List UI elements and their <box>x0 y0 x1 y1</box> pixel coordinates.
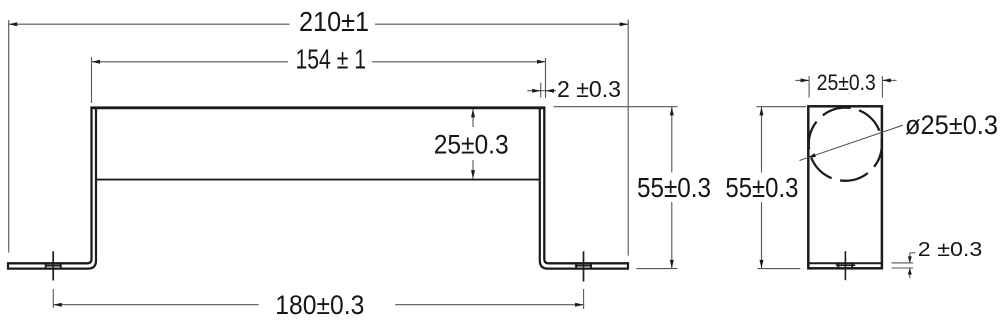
left foot hole centerline cross <box>45 251 61 280</box>
dimension 2±0.3 (side): arrows and leader <box>908 253 916 278</box>
dimension 55±0.3 (front view height): extension lines <box>554 107 678 269</box>
dimension 55±0.3 (side view height): dimension line with arrows <box>760 107 764 269</box>
right foot hole edges <box>576 262 591 269</box>
side view: hole centerline cross <box>836 251 855 280</box>
dimension 55±0.3 (side view height): extension lines <box>756 107 806 269</box>
side view: body rectangle <box>808 106 882 268</box>
svg-text:180±0.3: 180±0.3 <box>275 290 364 320</box>
handle front view: top bar <box>90 106 545 109</box>
dimension 210±1: dimension line with arrows <box>9 22 629 26</box>
diameter leader line <box>800 125 903 160</box>
svg-text:154 ± 1: 154 ± 1 <box>296 44 367 75</box>
dimension 210±1: extension lines <box>9 20 629 256</box>
svg-text:25±0.3: 25±0.3 <box>817 70 876 95</box>
dimension 25±0.3 (side width): outside arrows <box>795 78 896 82</box>
svg-text:55±0.3: 55±0.3 <box>725 172 798 203</box>
svg-text:55±0.3: 55±0.3 <box>637 172 711 203</box>
svg-text:2 ±0.3: 2 ±0.3 <box>918 239 983 261</box>
handle front view: right leg and right foot <box>540 108 628 270</box>
dimension 2±0.3 (side plate thickness): extension stubs <box>891 263 913 268</box>
dimension 25±0.3 (grip height, front): arrows <box>471 109 475 179</box>
handle front view: lower grip line <box>96 179 540 181</box>
left foot hole edges <box>46 262 61 269</box>
dimension 2±0.3 (front): dimension line with arrows <box>527 89 556 93</box>
dimension 2±0.3 (wall thickness, front): tick extension <box>540 83 542 98</box>
handle front view: left leg and left foot <box>8 108 96 270</box>
dimension 55±0.3 (front view height): dimension line with arrows <box>670 107 674 269</box>
dimension 154±1: dimension line with arrows <box>92 60 546 64</box>
svg-text:ø25±0.3: ø25±0.3 <box>905 110 998 140</box>
svg-text:210±1: 210±1 <box>299 6 369 37</box>
side view: dashed grip circle (hidden tube) <box>809 108 882 181</box>
dimension 180±0.3: extension lines <box>53 289 583 309</box>
dimension 180±0.3: dimension line with arrows <box>53 303 583 307</box>
svg-text:25±0.3: 25±0.3 <box>434 130 509 160</box>
svg-text:2 ±0.3: 2 ±0.3 <box>557 76 621 102</box>
dimension 154±1: extension lines <box>92 57 546 103</box>
right foot hole centerline cross <box>575 251 592 281</box>
side view: foot plate inner line <box>808 262 882 264</box>
side view: hole edges in foot plate <box>838 262 852 269</box>
dimension 25±0.3 (side width): extension lines <box>809 76 882 98</box>
